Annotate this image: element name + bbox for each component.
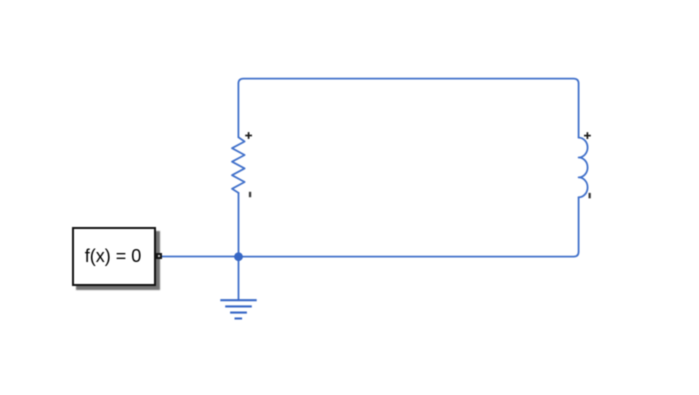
solver block f(x)=0 <box>72 227 156 286</box>
wire top loop <box>238 79 578 138</box>
inductor - polarity <box>589 193 591 198</box>
wire from solver block port to node <box>161 256 238 258</box>
inductor L1 <box>579 138 588 198</box>
inductor + polarity <box>584 132 591 139</box>
resistor R1 <box>232 137 245 193</box>
wire inductor bottom + bottom wire to node <box>239 197 579 256</box>
ground <box>220 300 256 318</box>
ground wire stem <box>238 257 240 301</box>
wire resistor bottom to node <box>238 193 240 257</box>
solver block port <box>156 253 162 259</box>
node A (junction dot) <box>234 252 243 261</box>
resistor - polarity <box>249 192 251 197</box>
resistor + polarity <box>245 132 252 139</box>
